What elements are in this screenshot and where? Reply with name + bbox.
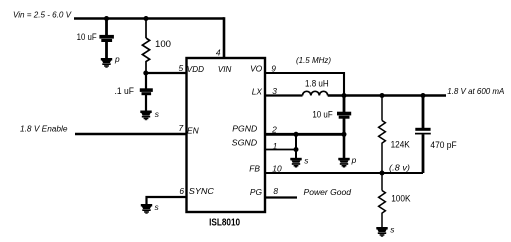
svg-text:100K: 100K [391,193,410,203]
svg-text:10: 10 [272,164,282,174]
svg-text:10 uF: 10 uF [312,110,333,120]
junction VDD node [143,71,148,76]
svg-text:9: 9 [271,63,276,73]
svg-text:4: 4 [216,48,221,58]
svg-text:EN: EN [187,125,200,135]
ground s (.1uF cap) [140,111,151,121]
wire EN input [75,133,187,136]
ground s (100K) [376,227,387,237]
svg-text:1.8 V at 600 mA: 1.8 V at 600 mA [447,86,504,96]
wire VIN drop to pin 4 [223,17,226,58]
svg-text:6: 6 [179,186,184,196]
resistor 124K [379,97,386,173]
svg-text:PGND: PGND [232,123,257,133]
wire FB pin 10 [265,172,423,174]
svg-text:470 pF: 470 pF [430,140,457,150]
svg-text:(1.5 MHz): (1.5 MHz) [296,55,331,65]
wire SGND pin 1 [265,149,296,151]
wire PGND drop to ground [343,134,346,158]
svg-text:Power Good: Power Good [304,187,352,197]
junction output node at 470pF [421,93,426,98]
svg-text:VDD: VDD [187,64,204,74]
svg-text:1.8 V Enable: 1.8 V Enable [20,123,68,133]
inductor L1 1.8uH [303,91,328,95]
wire SGND drop to ground [295,134,297,158]
svg-text:.1 uF: .1 uF [115,86,135,96]
svg-text:(.8 v): (.8 v) [389,163,410,173]
svg-text:PG: PG [250,187,263,197]
junction 100 resistor node [144,16,149,21]
svg-text:VIN: VIN [218,64,232,74]
wire Vin top rail [74,17,224,20]
svg-text:7: 7 [179,123,184,133]
svg-text:SYNC: SYNC [189,186,215,196]
svg-text:5: 5 [179,63,184,73]
svg-text:p: p [351,155,357,165]
junction FB divider node [380,171,385,176]
capacitor 470pF [415,97,431,173]
wire output rail [328,94,446,96]
IC U1 ISL8010 body [187,58,266,212]
svg-text:LX: LX [252,86,263,96]
resistor 100 [142,19,149,74]
capacitor C-bypass .1uF [140,73,153,111]
junction output node at 124K [380,93,385,98]
junction output node at VO [342,93,347,98]
svg-text:p: p [114,54,120,64]
ground p (input cap) [101,58,112,68]
junction PGND/SGND tie [294,132,299,137]
wire SYNC to ground [147,197,187,204]
svg-text:10 uF: 10 uF [77,32,97,42]
wire PGND pin 2 [265,133,344,136]
svg-text:124K: 124K [391,140,410,150]
junction PGND/output-cap [342,132,347,137]
svg-text:1.8 uH: 1.8 uH [305,79,329,89]
svg-text:SGND: SGND [232,138,257,148]
junction input cap node [104,16,109,21]
wire VDD to pin 5 [146,72,187,74]
svg-text:100: 100 [155,39,171,49]
wire LX pin 3 to inductor [265,94,303,96]
wire VO pin 9 to output node [265,73,344,96]
resistor 100K [379,173,386,227]
svg-text:8: 8 [273,186,278,196]
ground s (SYNC) [141,204,152,214]
capacitor C-out 10uF [337,96,351,135]
ground s (SGND) [290,158,301,168]
svg-text:Vin = 2.5 - 6.0 V: Vin = 2.5 - 6.0 V [13,9,72,19]
capacitor C-in 10uF [99,19,114,59]
wire PG pin 8 [265,196,297,198]
svg-text:FB: FB [249,164,260,174]
svg-text:ISL8010: ISL8010 [209,218,240,229]
ground p (PGND) [338,158,349,168]
junction SGND [294,147,299,152]
svg-text:VO: VO [250,64,263,74]
